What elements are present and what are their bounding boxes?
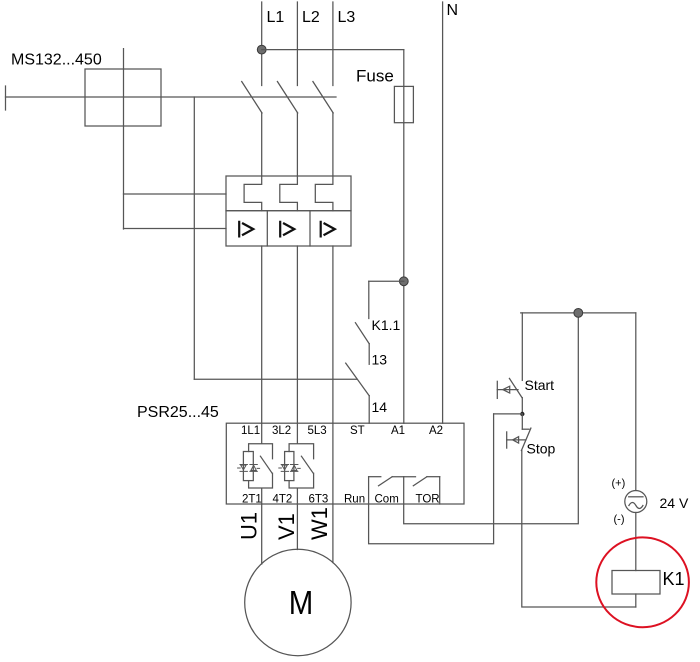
svg-text:Com: Com [375, 494, 399, 506]
wire phase 2 to PSR [296, 246, 298, 423]
svg-text:MS132...450: MS132...450 [11, 52, 102, 69]
svg-text:V1: V1 [274, 513, 299, 540]
thyristor pair box phase 2 [285, 452, 294, 481]
thyristor phase 2 cell wiring [289, 423, 314, 504]
svg-text:L1: L1 [267, 9, 285, 26]
wire from L1 tap to fuse [262, 49, 404, 51]
wire control top rail [521, 312, 636, 314]
fuse F1 [394, 86, 413, 122]
pushbutton Start operator [497, 381, 518, 398]
label I> pole 3 [321, 222, 335, 237]
svg-text:TOR: TOR [416, 494, 440, 506]
svg-text:4T2: 4T2 [273, 494, 293, 506]
svg-text:14: 14 [372, 399, 388, 415]
svg-text:Fuse: Fuse [356, 67, 394, 86]
thyristor phase 1 cell wiring [249, 423, 273, 504]
wire phase 1 to PSR [261, 246, 263, 423]
wire relay output rail segment 1 [369, 476, 381, 478]
wire relay output rail segment 2 [392, 476, 415, 478]
svg-text:Start: Start [525, 377, 555, 393]
wire breaker actuator vertical link [123, 49, 125, 229]
overload relay trip box [226, 211, 351, 246]
svg-text:ST: ST [350, 425, 365, 437]
svg-text:W1: W1 [307, 507, 332, 540]
svg-text:(-): (-) [614, 514, 625, 526]
source G1 24V [625, 491, 647, 513]
overload heater element pole 1 [244, 176, 262, 211]
bypass contact phase 2 [301, 456, 313, 473]
overload trip box divider 2 [309, 211, 311, 246]
wire link to overload contact box [124, 193, 227, 195]
contact Run-Com [379, 477, 393, 486]
svg-text:5L3: 5L3 [308, 425, 327, 437]
svg-text:PSR25...45: PSR25...45 [137, 404, 219, 421]
wire Run to start junction [369, 414, 494, 544]
wire W1 to motor [332, 504, 334, 563]
label I> pole 1 [239, 222, 253, 237]
highlight circle around K1 [596, 537, 689, 627]
node junction dot on A1 wire [399, 277, 408, 286]
wire relay output rail segment 3 [427, 476, 440, 478]
wire supply line L1 [261, 2, 263, 86]
wire fuse to A1 [403, 123, 405, 423]
wire supply line L3 [332, 2, 334, 86]
svg-text:3L2: 3L2 [272, 425, 291, 437]
wire A1 tap to K1.1 [369, 280, 404, 282]
wire linkage to aux contact 13-14 [194, 378, 357, 380]
wire Stop down to relay return [522, 451, 636, 607]
svg-text:24 V: 24 V [660, 495, 689, 511]
svg-text:U1: U1 [236, 512, 261, 540]
wire V1 to motor [296, 504, 298, 550]
wire breaker linkage end tick [5, 86, 7, 110]
svg-text:L3: L3 [338, 9, 356, 26]
thyristor pair box phase 1 [243, 452, 253, 481]
wire link to overload trip box [124, 228, 227, 230]
pushbutton Stop contact NC [521, 428, 531, 451]
wire junction to Stop [521, 414, 523, 429]
soft starter U1 PSR box [226, 423, 464, 504]
wire supply line L2 [296, 2, 298, 86]
label I> pole 2 [280, 222, 294, 237]
wire Com to 24V rail [404, 313, 579, 524]
overload heater element pole 3 [315, 176, 333, 211]
thyristor symbols phase 2 [279, 465, 300, 472]
wire TOR output lead [439, 477, 441, 504]
motor M1 [245, 549, 351, 655]
svg-text:Run: Run [344, 494, 365, 506]
breaker pole 1 contact [242, 82, 262, 177]
svg-text:13: 13 [372, 352, 388, 368]
circuit breaker Q1 actuator box [85, 69, 161, 126]
wire phase 3 straight through PSR [332, 423, 334, 504]
svg-text:A1: A1 [391, 425, 405, 437]
wire Com output lead [403, 477, 405, 504]
overload relay heater box [226, 176, 351, 211]
svg-text:N: N [447, 2, 459, 19]
svg-text:Stop: Stop [527, 441, 556, 457]
node junction dot start-stop [520, 412, 524, 416]
svg-text:2T1: 2T1 [242, 494, 262, 506]
wire Run output lead [368, 477, 370, 504]
svg-text:K1: K1 [663, 569, 685, 589]
wire fuse feed [403, 50, 405, 123]
wire phase 3 to PSR [332, 246, 334, 423]
wire aux contact to ST [368, 396, 370, 424]
svg-text:M: M [289, 584, 314, 621]
node junction dot control rail [574, 309, 583, 318]
breaker pole 3 contact [313, 82, 333, 177]
contact K1.1 normally open [355, 323, 369, 344]
overload heater element pole 2 [280, 176, 298, 211]
wire U1 to motor [261, 504, 263, 564]
svg-text:(+): (+) [612, 478, 626, 490]
wire source to relay coil [635, 513, 637, 571]
svg-text:A2: A2 [429, 425, 443, 437]
wire between K1.1 and aux contact [368, 344, 370, 365]
wire breaker mechanical linkage horizontal [6, 96, 337, 98]
pushbutton Start contact [509, 378, 522, 397]
wire linkage drop to aux contact [193, 97, 195, 379]
svg-text:L2: L2 [302, 9, 320, 26]
wire Start to junction [521, 398, 523, 414]
wire to Start button [521, 313, 523, 381]
overload trip box divider 1 [266, 211, 268, 246]
svg-text:1L1: 1L1 [241, 425, 260, 437]
svg-text:6T3: 6T3 [309, 494, 329, 506]
thyristor symbols phase 1 [238, 465, 260, 472]
wire K1.1 upper lead [368, 281, 370, 318]
relay coil K1 [612, 571, 660, 595]
svg-text:K1.1: K1.1 [372, 317, 401, 333]
bypass contact phase 1 [260, 456, 272, 473]
wire neutral N [442, 2, 444, 423]
wire 24V feed [635, 313, 637, 491]
contact Com-TOR [413, 477, 427, 486]
wire junction to run branch [494, 413, 523, 415]
node junction dot on L1 [257, 45, 266, 54]
pushbutton Stop operator [507, 432, 526, 448]
breaker pole 2 contact [277, 82, 297, 177]
contact breaker aux 13-14 [346, 363, 370, 396]
wire relay coil to return [635, 594, 637, 607]
